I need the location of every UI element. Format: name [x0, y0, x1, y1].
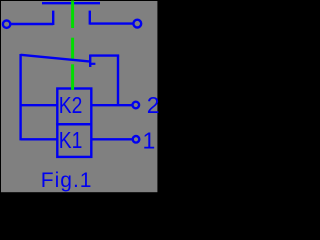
- contact S2 anvil: [89, 63, 95, 65]
- actuator link (green dashed): [71, 1, 74, 90]
- terminal top-right: [133, 20, 141, 28]
- wire left rail: [19, 54, 21, 140]
- wire switch to node: [90, 54, 119, 56]
- svg-text:Fig.1: Fig.1: [41, 169, 93, 192]
- wire K2 left: [21, 104, 58, 106]
- svg-text:1: 1: [143, 127, 156, 153]
- wire K1 right: [91, 138, 132, 140]
- terminal 2: [133, 102, 140, 109]
- contact S1 left post: [52, 11, 54, 25]
- contact S1 right post: [89, 11, 91, 25]
- svg-text:K1: K1: [59, 128, 83, 153]
- wire K1 left: [21, 138, 58, 140]
- wire: [90, 22, 133, 24]
- wire down to node 2: [117, 56, 119, 106]
- svg-text:2: 2: [147, 92, 160, 118]
- contact S1 bridge bar: [42, 2, 100, 4]
- terminal 1: [133, 136, 140, 143]
- wire K2 right: [91, 104, 132, 106]
- wire: [10, 23, 53, 25]
- relay coil K1 box: [57, 124, 91, 157]
- contact S2 movable arm: [21, 55, 89, 62]
- terminal top-left: [3, 21, 10, 28]
- relay coil K2 box: [57, 89, 91, 125]
- svg-text:K2: K2: [59, 94, 83, 119]
- contact S2 fixed post: [89, 55, 91, 68]
